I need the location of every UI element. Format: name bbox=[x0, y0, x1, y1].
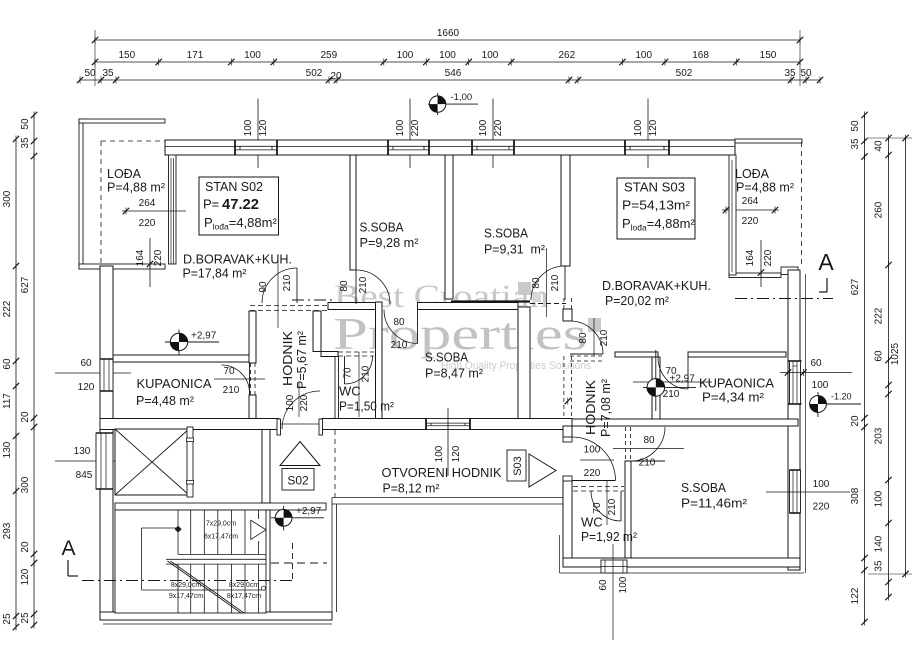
stairs lower flight bbox=[177, 564, 179, 613]
top exterior wall bbox=[165, 140, 735, 155]
svg-text:100: 100 bbox=[633, 119, 644, 136]
svg-text:20: 20 bbox=[850, 415, 861, 427]
S03 entry dims bbox=[580, 459, 614, 461]
svg-text:264: 264 bbox=[139, 198, 156, 209]
svg-text:P=: P= bbox=[203, 197, 219, 212]
left dimension line inner bbox=[33, 115, 35, 625]
door S.SOBA 11,46 (80/210) bbox=[631, 460, 665, 462]
svg-text:100: 100 bbox=[482, 50, 499, 61]
svg-text:100: 100 bbox=[243, 119, 254, 136]
svg-text:7x29,0cm: 7x29,0cm bbox=[206, 521, 237, 528]
svg-text:35: 35 bbox=[874, 560, 885, 572]
svg-text:502: 502 bbox=[676, 68, 693, 79]
svg-text:P=9,28 m²: P=9,28 m² bbox=[360, 235, 420, 250]
left dimension line outer bbox=[15, 139, 17, 627]
S03 entry door swing bbox=[572, 480, 616, 482]
svg-text:222: 222 bbox=[2, 300, 13, 317]
svg-text:220: 220 bbox=[153, 249, 164, 266]
svg-text:210: 210 bbox=[599, 329, 610, 346]
svg-text:25: 25 bbox=[2, 613, 13, 625]
svg-text:220: 220 bbox=[584, 468, 601, 479]
svg-text:P=9,31 m²: P=9,31 m² bbox=[484, 242, 546, 257]
svg-text:100: 100 bbox=[434, 445, 445, 462]
right glazed wall to loggia bbox=[729, 155, 736, 275]
west wall window 130 bbox=[96, 433, 113, 489]
svg-text:164: 164 bbox=[745, 249, 756, 266]
loggia right: thin top wall bbox=[735, 139, 802, 143]
svg-text:35: 35 bbox=[850, 138, 861, 150]
svg-text:P=20,02 m²: P=20,02 m² bbox=[605, 293, 670, 308]
dashed opening D.BORAVAK-HODNIK y305-310 bbox=[250, 305, 328, 307]
svg-text:25: 25 bbox=[20, 612, 31, 624]
svg-text:168: 168 bbox=[692, 50, 709, 61]
svg-text:164: 164 bbox=[135, 249, 146, 266]
svg-text:P=1,50 m²: P=1,50 m² bbox=[339, 399, 395, 414]
svg-text:+2,97: +2,97 bbox=[296, 506, 322, 517]
KUPAONICA S03 west wall x652 bbox=[652, 357, 660, 419]
svg-text:A: A bbox=[61, 537, 75, 560]
level marker +2,97 stairs bbox=[271, 517, 324, 519]
stairs landing middle lines bbox=[166, 558, 266, 560]
HODNIK S02 east wall x313 bbox=[313, 311, 321, 352]
svg-text:100: 100 bbox=[812, 380, 829, 391]
section line left (dash-dot) bbox=[82, 580, 294, 582]
svg-text:627: 627 bbox=[850, 278, 861, 295]
landing wall above stairs bbox=[115, 503, 326, 510]
svg-text:40: 40 bbox=[874, 140, 885, 152]
wing south wall y558 bbox=[563, 558, 800, 567]
loggia right: bottom wall bbox=[729, 273, 781, 278]
svg-text:+2,97: +2,97 bbox=[670, 374, 696, 385]
STAN S02 info box bbox=[199, 177, 279, 235]
svg-text:P=4,48 m²: P=4,48 m² bbox=[136, 393, 195, 408]
svg-text:293: 293 bbox=[2, 522, 13, 539]
west exterior wall bbox=[100, 266, 113, 612]
svg-text:P=4,88 m²: P=4,88 m² bbox=[107, 180, 166, 195]
window center dim lines, top wall bbox=[257, 99, 259, 169]
svg-text:P=17,84 m²: P=17,84 m² bbox=[183, 266, 248, 281]
right dimension line B bbox=[888, 138, 890, 597]
svg-text:220: 220 bbox=[410, 119, 421, 136]
right dimension line C (1025) bbox=[905, 138, 907, 574]
svg-text:220: 220 bbox=[742, 216, 759, 227]
svg-text:WC: WC bbox=[581, 515, 603, 530]
level marker +2,97 right corridor bbox=[643, 386, 696, 388]
watermark bbox=[333, 279, 601, 372]
stairs arrow bbox=[251, 520, 266, 539]
svg-text:50: 50 bbox=[800, 68, 812, 79]
svg-text:HODNIK: HODNIK bbox=[583, 380, 598, 435]
svg-text:300: 300 bbox=[2, 190, 13, 207]
svg-text:100: 100 bbox=[813, 479, 830, 490]
level marker -1,00 bbox=[428, 103, 478, 105]
svg-text:P=8,12 m²: P=8,12 m² bbox=[383, 481, 441, 496]
svg-text:845: 845 bbox=[76, 470, 93, 481]
STAN S03 info box bbox=[617, 178, 695, 239]
svg-text:203: 203 bbox=[874, 427, 885, 444]
svg-text:S.SOBA: S.SOBA bbox=[484, 226, 528, 241]
east wall window lower (100/220) bbox=[790, 470, 801, 513]
loggia left: thin walls bbox=[79, 119, 83, 269]
door S.SOBA 9,28 (80/210) bbox=[355, 270, 357, 304]
svg-text:80: 80 bbox=[578, 332, 589, 344]
svg-text:210: 210 bbox=[282, 274, 293, 291]
svg-text:20: 20 bbox=[20, 541, 31, 553]
stairs outer box bbox=[115, 510, 266, 613]
door kitchen pass S02 (80/210) bbox=[417, 310, 419, 344]
S02 entry door swing bbox=[282, 391, 320, 429]
bottom wall of stair block bbox=[100, 612, 332, 620]
KUPAONICA S03 top wall y352 bbox=[615, 352, 658, 357]
svg-text:210: 210 bbox=[639, 458, 656, 469]
door S.SOBA 9,31 (80/210) bbox=[564, 266, 566, 300]
svg-text:220: 220 bbox=[139, 218, 156, 229]
svg-text:120: 120 bbox=[20, 568, 31, 585]
door pantry (80/210) bbox=[570, 353, 603, 355]
svg-text:171: 171 bbox=[187, 50, 204, 61]
svg-text:100: 100 bbox=[244, 50, 261, 61]
corridor window dim line bbox=[447, 408, 449, 476]
svg-text:90: 90 bbox=[258, 281, 269, 293]
svg-text:100: 100 bbox=[395, 119, 406, 136]
west wall window 60/120 bbox=[100, 359, 113, 391]
pantry wall x518 bbox=[518, 307, 530, 419]
svg-text:P=4,88 m²: P=4,88 m² bbox=[736, 180, 795, 195]
svg-text:60: 60 bbox=[874, 350, 885, 362]
door WC S03 (70/210) bbox=[620, 491, 622, 521]
left glazed wall to loggia (264) bbox=[169, 155, 177, 264]
svg-text:STAN S02: STAN S02 bbox=[205, 179, 263, 194]
top dimension row 2 bbox=[95, 61, 800, 63]
svg-text:47.22: 47.22 bbox=[222, 197, 259, 213]
svg-text:P=1,92 m²: P=1,92 m² bbox=[581, 529, 638, 544]
east exterior wall bbox=[788, 270, 800, 570]
svg-text:259: 259 bbox=[320, 50, 337, 61]
svg-text:60: 60 bbox=[2, 358, 13, 370]
svg-text:220: 220 bbox=[299, 394, 310, 411]
svg-text:KUPAONICA: KUPAONICA bbox=[699, 376, 774, 391]
svg-text:50: 50 bbox=[20, 118, 31, 130]
svg-text:20: 20 bbox=[20, 411, 31, 423]
S.SOBA 11,46 west wall x624 bbox=[625, 427, 627, 461]
dashed opening S03 corridor top bbox=[570, 355, 604, 357]
svg-text:80: 80 bbox=[339, 280, 350, 292]
svg-text:D.BORAVAK+KUH.: D.BORAVAK+KUH. bbox=[183, 252, 292, 267]
svg-text:1025: 1025 bbox=[890, 342, 901, 365]
svg-text:210: 210 bbox=[358, 276, 369, 293]
svg-text:-1.20: -1.20 bbox=[831, 392, 852, 402]
stairs upper flight bbox=[177, 510, 179, 555]
svg-text:300: 300 bbox=[20, 476, 31, 493]
svg-text:502: 502 bbox=[306, 68, 323, 79]
stairwell east wall bbox=[262, 430, 270, 504]
svg-text:-1,00: -1,00 bbox=[451, 92, 473, 103]
svg-text:60: 60 bbox=[80, 358, 92, 369]
svg-text:140: 140 bbox=[874, 535, 885, 552]
svg-text:210: 210 bbox=[223, 385, 240, 396]
corridor window (100/120) bbox=[426, 419, 470, 430]
svg-text:210: 210 bbox=[391, 340, 408, 351]
stairs inner rail bbox=[142, 527, 178, 529]
svg-text:100: 100 bbox=[584, 445, 601, 456]
svg-text:262: 262 bbox=[558, 50, 575, 61]
KUPAONICA top wall y355 bbox=[113, 355, 249, 362]
svg-text:130: 130 bbox=[74, 446, 91, 457]
S03 entry triangle bbox=[529, 454, 556, 487]
svg-text:8x17,47cm: 8x17,47cm bbox=[227, 593, 261, 600]
svg-text:80: 80 bbox=[393, 317, 405, 328]
svg-text:220: 220 bbox=[763, 249, 774, 266]
middle horizontal band segments bbox=[328, 303, 376, 310]
S.SOBA 8,47 west wall x377 bbox=[376, 302, 383, 419]
svg-text:KUPAONICA: KUPAONICA bbox=[137, 376, 212, 391]
svg-text:S.SOBA: S.SOBA bbox=[425, 350, 468, 365]
svg-text:OTVORENI HODNIK: OTVORENI HODNIK bbox=[382, 465, 502, 480]
S02 entry dim 100/220 bbox=[298, 383, 300, 417]
level marker +2,97 living room bbox=[165, 341, 219, 343]
windows in top wall bbox=[235, 140, 277, 155]
svg-text:70: 70 bbox=[223, 366, 235, 377]
svg-text:260: 260 bbox=[874, 201, 885, 218]
top dimension row 3 bbox=[80, 79, 820, 81]
WC window dim 60/100 bbox=[612, 544, 614, 640]
stairs diagonal cut bbox=[167, 561, 241, 613]
svg-text:210: 210 bbox=[550, 274, 561, 291]
section line right (dash-dot) bbox=[735, 298, 833, 300]
svg-text:120: 120 bbox=[78, 382, 95, 393]
svg-text:S.SOBA: S.SOBA bbox=[360, 220, 404, 235]
svg-text:150: 150 bbox=[118, 50, 135, 61]
elevator shaft bbox=[115, 429, 189, 495]
svg-text:8x17,47cm: 8x17,47cm bbox=[204, 534, 238, 541]
svg-text:210: 210 bbox=[663, 389, 680, 400]
svg-text:STAN S03: STAN S03 bbox=[624, 180, 685, 195]
svg-text:60: 60 bbox=[810, 358, 822, 369]
svg-text:+2,97: +2,97 bbox=[191, 331, 217, 342]
svg-text:308: 308 bbox=[850, 487, 861, 504]
svg-text:WC: WC bbox=[339, 384, 361, 399]
corridor north wall: segments bbox=[100, 419, 279, 430]
door KUPAONICA S02 (70/210) bbox=[249, 363, 251, 395]
loggia left: dashed roof line bbox=[101, 140, 165, 142]
svg-text:S02: S02 bbox=[287, 474, 309, 488]
svg-text:627: 627 bbox=[20, 276, 31, 293]
svg-text:35: 35 bbox=[102, 68, 114, 79]
svg-text:8x29,0cm: 8x29,0cm bbox=[171, 582, 202, 589]
svg-text:35: 35 bbox=[784, 68, 796, 79]
svg-text:D.BORAVAK+KUH.: D.BORAVAK+KUH. bbox=[602, 278, 711, 293]
svg-text:9x17,47cm: 9x17,47cm bbox=[169, 593, 203, 600]
svg-text:60: 60 bbox=[598, 579, 609, 591]
svg-text:130: 130 bbox=[2, 441, 13, 458]
svg-text:S03: S03 bbox=[512, 456, 524, 476]
svg-text:100: 100 bbox=[874, 490, 885, 507]
S02 entry door frame bbox=[277, 419, 281, 435]
svg-text:120: 120 bbox=[258, 119, 269, 136]
svg-text:35: 35 bbox=[20, 137, 31, 149]
wall piece y351.5 x321-338 bbox=[321, 352, 338, 357]
svg-text:120: 120 bbox=[648, 119, 659, 136]
WC S03 dashed opening bbox=[573, 486, 624, 488]
svg-text:546: 546 bbox=[445, 68, 462, 79]
corridor S03 west wall x563 (segments) bbox=[563, 298, 565, 309]
svg-text:70: 70 bbox=[343, 367, 354, 379]
dashed door opening in hodnik wall bbox=[250, 363, 252, 395]
S.SOBA 9,31 south wall bbox=[451, 300, 530, 302]
svg-text:122: 122 bbox=[850, 587, 861, 604]
svg-text:264: 264 bbox=[742, 196, 759, 207]
svg-text:100: 100 bbox=[635, 50, 652, 61]
right dimension line A bbox=[864, 115, 866, 622]
svg-text:120: 120 bbox=[451, 445, 462, 462]
WC window in south wall bbox=[601, 560, 627, 573]
S02 label box bbox=[282, 469, 314, 491]
svg-text:100: 100 bbox=[478, 119, 489, 136]
svg-text:50: 50 bbox=[850, 120, 861, 132]
svg-text:80: 80 bbox=[531, 277, 542, 289]
svg-text:20: 20 bbox=[330, 71, 342, 82]
loggia right: dashed edge bbox=[801, 142, 803, 267]
svg-text:150: 150 bbox=[760, 50, 777, 61]
svg-text:220: 220 bbox=[813, 502, 830, 513]
east wall window upper (100) bbox=[790, 361, 801, 404]
svg-text:70: 70 bbox=[592, 502, 603, 514]
wall between bedrooms (x445) bbox=[445, 155, 453, 299]
right wall dims bbox=[780, 372, 852, 374]
S02 entry triangle bbox=[280, 442, 320, 466]
door KUPAONICA S03 (70/210) bbox=[687, 357, 689, 389]
svg-text:80: 80 bbox=[643, 435, 655, 446]
svg-text:A: A bbox=[818, 249, 834, 275]
svg-text:100: 100 bbox=[397, 50, 414, 61]
open corridor edge lines bbox=[332, 497, 563, 499]
loggia right dim 264/220 bbox=[722, 209, 779, 211]
svg-text:P=4,34 m²: P=4,34 m² bbox=[702, 390, 765, 405]
svg-text:P=7,08 m²: P=7,08 m² bbox=[598, 378, 613, 437]
svg-text:50: 50 bbox=[84, 68, 96, 79]
svg-text:100: 100 bbox=[439, 50, 456, 61]
svg-text:P=8,47 m²: P=8,47 m² bbox=[425, 366, 484, 381]
svg-text:117: 117 bbox=[2, 393, 13, 409]
svg-text:222: 222 bbox=[874, 307, 885, 324]
loggia left dim 264/220 bbox=[122, 210, 186, 212]
HODNIK S02 west wall x249 bbox=[249, 311, 256, 363]
svg-text:210: 210 bbox=[607, 498, 618, 515]
svg-text:HODNIK: HODNIK bbox=[280, 331, 295, 386]
svg-text:100: 100 bbox=[285, 394, 296, 411]
door D.BORAVAK-HODNIK (90/210) bbox=[296, 268, 298, 303]
section line middle segment bbox=[292, 299, 332, 301]
door WC S02 (70/210) dashed opening bbox=[338, 351, 374, 353]
wall S.SOBA 9,31 east (x561) bbox=[561, 155, 570, 266]
top dimension row 1 (1660) bbox=[95, 39, 800, 41]
inner dim left wall window 60/120 bbox=[55, 372, 131, 374]
svg-text:P=54,13m²: P=54,13m² bbox=[622, 198, 691, 213]
svg-text:P=11,46m²: P=11,46m² bbox=[681, 496, 748, 511]
svg-text:100: 100 bbox=[618, 576, 629, 593]
svg-text:P=5,67 m²: P=5,67 m² bbox=[294, 330, 309, 389]
S03 wing north band (y419-430) bbox=[572, 419, 798, 426]
elevator east wall with door bbox=[187, 427, 193, 497]
door WC S02 (70/210) bbox=[344, 356, 346, 384]
WC S02 west wall bbox=[335, 357, 339, 419]
S03 label box bbox=[507, 450, 526, 481]
svg-text:220: 220 bbox=[493, 119, 504, 136]
svg-text:210: 210 bbox=[361, 365, 372, 382]
wall S.SOBA 9,28 west (x350) bbox=[350, 155, 356, 270]
svg-text:1660: 1660 bbox=[437, 28, 460, 39]
S03 entry door frame bbox=[563, 437, 572, 442]
inner dim left wall window 130/845 bbox=[55, 460, 131, 462]
svg-text:8x29,0cm: 8x29,0cm bbox=[229, 582, 260, 589]
svg-text:S.SOBA: S.SOBA bbox=[681, 480, 726, 495]
